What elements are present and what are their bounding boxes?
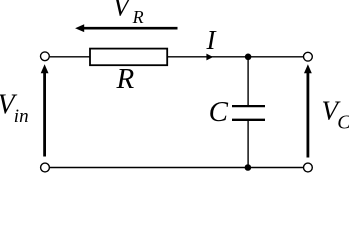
label V_C: [322, 96, 349, 134]
arrow V_R (voltage across resistor, pointing left): [75, 24, 177, 32]
arrow V_in (input voltage, pointing up): [41, 64, 49, 156]
wire capacitor lower lead: [247, 121, 249, 168]
node B (bottom junction dot): [245, 164, 252, 171]
terminal top-left: [41, 52, 50, 61]
svg-text:in: in: [14, 106, 29, 127]
arrow V_C (output voltage, pointing up): [304, 64, 312, 157]
terminal top-right: [304, 52, 313, 61]
node A (top junction dot): [245, 54, 252, 61]
wire top-right (resistor to output node): [167, 56, 303, 58]
wire top-left (input to resistor): [50, 56, 90, 58]
label V_in: [0, 90, 29, 128]
svg-text:C: C: [337, 112, 349, 134]
wire bottom (return path): [50, 167, 303, 169]
resistor R: [90, 49, 167, 95]
current arrowhead I: [206, 25, 218, 60]
svg-text:R: R: [132, 7, 144, 27]
terminal bottom-right: [304, 163, 313, 172]
capacitor C: [209, 96, 265, 128]
wire capacitor upper lead: [247, 57, 249, 105]
label V_R: [113, 0, 144, 27]
svg-text:C: C: [209, 96, 229, 128]
svg-text:R: R: [116, 63, 135, 95]
terminal bottom-left: [41, 163, 50, 172]
